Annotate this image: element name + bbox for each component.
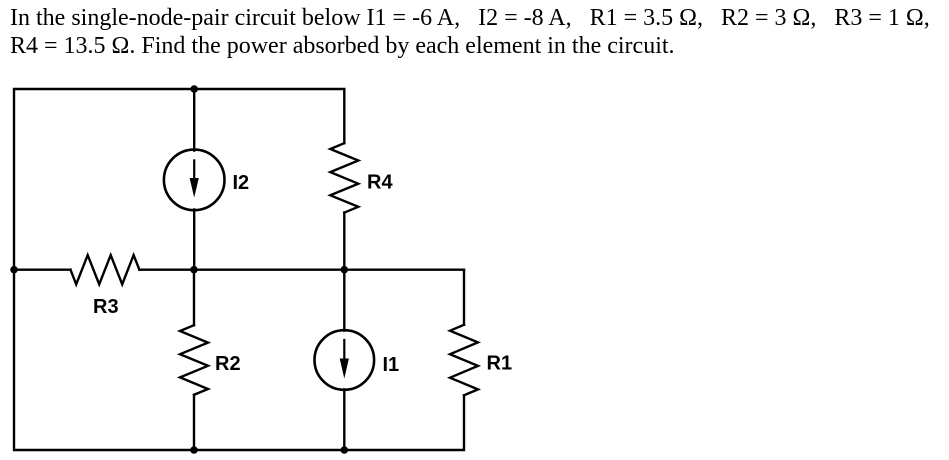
wire I2 branch upper — [193, 89, 195, 151]
resistor R4 — [330, 143, 358, 212]
wire R1 branch upper — [463, 270, 465, 325]
wire middle horizontal right — [139, 269, 464, 271]
svg-text:R1: R1 — [487, 353, 513, 375]
node top — [190, 85, 198, 93]
node mid-1 — [190, 266, 198, 274]
wire middle horizontal left — [14, 269, 71, 271]
node mid-2 — [341, 266, 349, 274]
resistor R3 — [71, 255, 140, 284]
svg-text:R4: R4 — [367, 172, 393, 194]
wire I1 branch upper — [343, 270, 345, 331]
svg-text:R2: R2 — [215, 353, 241, 375]
wire I1 branch lower — [343, 389, 345, 450]
svg-text:I2: I2 — [233, 172, 250, 194]
resistor R2 — [180, 325, 208, 395]
node bottom-2 — [341, 446, 349, 454]
wire I2 branch lower — [193, 210, 195, 270]
wire left vertical lower — [14, 270, 194, 450]
resistor R1 — [450, 325, 478, 396]
svg-text:I1: I1 — [383, 354, 400, 376]
wire R2 branch upper — [193, 270, 195, 326]
wire bottom — [194, 395, 464, 450]
node mid-left — [10, 266, 18, 274]
wire top: left corner to right corner — [14, 89, 344, 270]
svg-text:R3: R3 — [93, 296, 119, 318]
wire R4 branch lower — [343, 213, 345, 270]
current source I1 — [315, 330, 375, 390]
wire R2 branch lower — [193, 395, 195, 450]
node bottom-1 — [190, 446, 198, 454]
current source I2 — [164, 150, 225, 211]
